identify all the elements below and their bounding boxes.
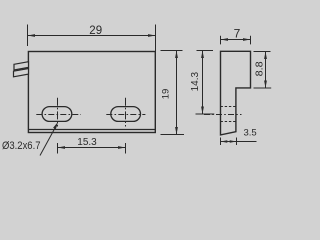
dim 19 top extension (161, 50, 183, 52)
dim 14.3 top extension (197, 50, 214, 52)
arrowhead 29 right (148, 34, 156, 37)
slot right vertical centerline (125, 98, 127, 127)
slot right horizontal centerline (106, 114, 145, 116)
svg-text:14.3: 14.3 (190, 72, 201, 92)
leader line for slot callout (40, 125, 57, 156)
svg-text:15.3: 15.3 (77, 137, 97, 148)
svg-text:Ø3.2x6.7: Ø3.2x6.7 (2, 140, 41, 152)
slot left (3.2x6.7 obround) (42, 107, 72, 122)
arrowhead 15.3 right (118, 146, 126, 149)
svg-text:29: 29 (89, 25, 102, 37)
dim 8.8 line (265, 52, 267, 89)
arrowhead leader (53, 122, 58, 130)
slot left vertical centerline (57, 98, 59, 127)
body outline (front view) (28, 52, 155, 133)
dim 15.3 left tick (57, 143, 59, 154)
dim 8.8 bottom extension (254, 87, 272, 89)
dim 8.8 top extension (254, 51, 271, 53)
wire tab upper (14, 62, 29, 70)
arrowhead 8.8 top (264, 52, 267, 60)
arrowhead 8.8 bottom (264, 81, 267, 89)
dim 7 right tick (250, 36, 252, 45)
arrowhead 29 left (28, 34, 36, 37)
body inner bottom line (28, 129, 155, 131)
arrowhead 15.3 left (58, 146, 66, 149)
dim 14.3 bottom extension (196, 113, 215, 115)
dim 29 line (28, 35, 156, 37)
slot right (111, 107, 141, 122)
arrowhead 14.3 top (201, 51, 204, 59)
dim 7 line (221, 39, 251, 41)
dim 3.5 right tick (236, 138, 238, 146)
arrowhead 3.5 right (230, 140, 237, 143)
slot left horizontal centerline (36, 114, 81, 116)
side view outline (221, 51, 251, 135)
dim 3.5 left tick (220, 138, 222, 146)
wire tab lower (14, 69, 29, 77)
svg-text:19: 19 (161, 89, 172, 100)
arrowhead 19 top (175, 51, 178, 59)
svg-text:8.8: 8.8 (255, 61, 266, 76)
arrowhead 7 right (243, 38, 251, 41)
side view hidden line upper (221, 106, 236, 108)
dim 15.3 line (58, 147, 126, 149)
arrowhead 7 left (221, 38, 229, 41)
svg-text:3.5: 3.5 (243, 128, 256, 139)
side view hidden line lower (221, 121, 236, 123)
dim 19 bottom extension (161, 134, 185, 136)
dim 29 extension line right (155, 25, 157, 52)
arrowhead 14.3 bottom (201, 107, 204, 115)
dim 19 line (176, 51, 178, 135)
dim 14.3 line (202, 51, 204, 115)
arrowhead 3.5 left (221, 140, 228, 143)
dim 15.3 right tick (125, 143, 127, 154)
dim 29 extension line left (27, 25, 29, 47)
dim 3.5 line (221, 141, 257, 143)
dim 7 left tick (220, 36, 222, 45)
arrowhead 19 bottom (175, 127, 178, 135)
side view centerline (204, 114, 242, 116)
svg-text:7: 7 (234, 26, 241, 40)
